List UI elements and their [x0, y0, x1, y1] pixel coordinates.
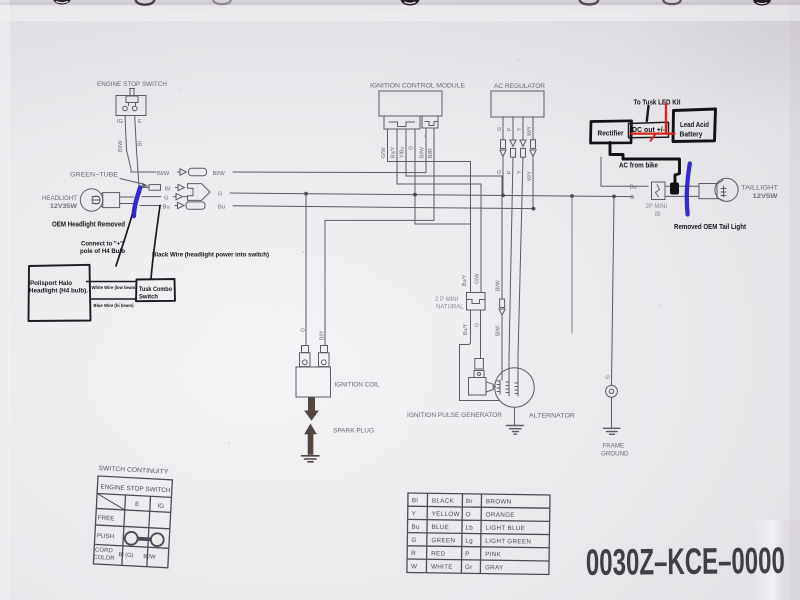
- svg-text:pole of H4 Bulb: pole of H4 Bulb: [80, 248, 125, 255]
- svg-text:G: G: [497, 170, 503, 174]
- frame ground symbol: [604, 428, 621, 434]
- svg-text:Bl/W: Bl/W: [213, 171, 226, 177]
- svg-text:PUSH: PUSH: [97, 533, 115, 541]
- ignition coil T1 terminals: [300, 346, 330, 367]
- wire J1 to taillight (Bu): [665, 185, 699, 187]
- wire U1 pin1 G/W to 2P natural: [388, 129, 471, 292]
- junction dot G bus x306: [304, 192, 308, 196]
- svg-text:To Tusk LED Kit: To Tusk LED Kit: [634, 98, 681, 107]
- svg-text:G: G: [301, 328, 307, 332]
- svg-text:Bl: Bl: [165, 186, 170, 192]
- svg-text:G/W: G/W: [381, 148, 387, 158]
- bullet connector on Bl/W: [500, 299, 505, 308]
- svg-text:OEM Headlight Removed: OEM Headlight Removed: [52, 220, 125, 229]
- wire branch x572 down: [571, 196, 573, 333]
- svg-text:Removed OEM Tail Light: Removed OEM Tail Light: [674, 224, 747, 231]
- svg-text:Switch: Switch: [139, 294, 158, 301]
- binder hole 7: [753, 0, 771, 6]
- annotation wire: to H4 + pole: [116, 208, 134, 266]
- svg-text:GROUND: GROUND: [601, 451, 629, 458]
- svg-text:Lg: Lg: [465, 538, 473, 545]
- svg-text:Rectifier: Rectifier: [598, 129, 624, 138]
- svg-text:IGNITION COIL: IGNITION COIL: [335, 382, 380, 389]
- ignition pulse generator PG1: [469, 359, 496, 396]
- wire bus Bl/W: [233, 171, 426, 174]
- junction dot G bus x503: [501, 194, 505, 198]
- svg-text:ENGINE STOP SWITCH: ENGINE STOP SWITCH: [97, 81, 167, 88]
- annotation wire: blue wire hi beam: [90, 298, 137, 300]
- wire J1 to taillight (G): [665, 195, 699, 197]
- svg-text:BROWN: BROWN: [486, 498, 512, 505]
- binder hole 2: [136, 0, 155, 5]
- svg-text:AC from bike: AC from bike: [619, 163, 658, 170]
- svg-text:Y: Y: [517, 170, 523, 174]
- wire G branch to frame ground: [612, 196, 615, 385]
- svg-text:2 P MINI: 2 P MINI: [435, 297, 459, 303]
- svg-text:Bl/W: Bl/W: [496, 325, 502, 336]
- svg-text:E: E: [138, 119, 142, 125]
- svg-text:P: P: [507, 170, 513, 174]
- svg-text:Br: Br: [466, 498, 473, 505]
- U2 wire Y: [518, 117, 523, 368]
- svg-text:P: P: [507, 127, 513, 131]
- leader arrow to green tube: [120, 179, 145, 185]
- svg-text:HEADLIGHT: HEADLIGHT: [42, 195, 77, 202]
- svg-text:P: P: [465, 551, 470, 558]
- spark plug SP1 arrow up: [304, 424, 317, 455]
- wire bus Bu: [233, 206, 534, 209]
- svg-text:Battery: Battery: [680, 130, 703, 139]
- wire G branch from dot to pulse-gen feed: [415, 194, 471, 224]
- annotation box: DC out: [629, 122, 669, 138]
- svg-text:GREEN: GREEN: [431, 537, 455, 544]
- svg-text:G: G: [630, 195, 635, 201]
- svg-text:Bl: Bl: [655, 212, 660, 218]
- svg-text:G: G: [218, 192, 223, 198]
- svg-text:GRAY: GRAY: [485, 564, 504, 571]
- svg-text:Connect to "+": Connect to "+": [81, 241, 123, 248]
- svg-text:ORANGE: ORANGE: [486, 511, 515, 518]
- svg-text:G: G: [164, 195, 169, 201]
- U2 wire W/Y: [532, 117, 534, 208]
- junction dot G bus x415: [413, 193, 417, 197]
- wire 2P natural G to pulse generator: [480, 310, 482, 359]
- svg-text:Y: Y: [412, 510, 417, 517]
- svg-text:Bl: Bl: [138, 141, 144, 146]
- wire ring to ground: [611, 397, 613, 428]
- svg-text:2P MINI: 2P MINI: [646, 204, 668, 210]
- svg-text:IGNITION PULSE GENERATOR: IGNITION PULSE GENERATOR: [407, 412, 502, 419]
- svg-text:IGNITION CONTROL MODULE: IGNITION CONTROL MODULE: [370, 83, 465, 90]
- svg-text:Blue Wire (hi beam): Blue Wire (hi beam): [94, 303, 134, 309]
- svg-text:BLACK: BLACK: [432, 498, 455, 505]
- wire U1 pin5 Bl/W to bus: [425, 129, 427, 173]
- wire headlight stub Bu: [120, 203, 134, 205]
- svg-text:TAILLIGHT: TAILLIGHT: [741, 185, 778, 192]
- svg-text:CORD: CORD: [95, 547, 114, 554]
- svg-text:NATURAL: NATURAL: [436, 305, 464, 311]
- svg-text:Bu: Bu: [411, 524, 420, 531]
- svg-text:Bu: Bu: [163, 204, 170, 210]
- svg-text:G/W: G/W: [475, 274, 481, 284]
- ignition coil T1: [296, 367, 331, 397]
- ignition control module U1: [379, 91, 442, 116]
- svg-text:LIGHT BLUE: LIGHT BLUE: [485, 525, 525, 533]
- row Bl/W: wire: [131, 171, 156, 173]
- junction dot Bu bus x533: [532, 207, 536, 211]
- ring terminal frame ground: [606, 385, 618, 397]
- wire coil G drop: [305, 194, 307, 345]
- svg-text:IG: IG: [117, 119, 123, 125]
- svg-text:GREEN~TUBE: GREEN~TUBE: [70, 172, 118, 179]
- svg-text:Black Wire (headlight power in: Black Wire (headlight power into switch): [152, 252, 269, 259]
- annotation box: Polisport Halo Headlight: [29, 265, 91, 321]
- row Bu: wire: [140, 205, 161, 207]
- svg-text:AC REGULATOR: AC REGULATOR: [494, 83, 546, 90]
- svg-text:12V5W: 12V5W: [753, 193, 779, 200]
- row G: wire: [142, 196, 161, 198]
- svg-text:Bu: Bu: [218, 205, 225, 211]
- switch continuity table: [93, 465, 173, 568]
- svg-text:G: G: [409, 146, 415, 150]
- binder hole smudge row: [0, 2, 800, 5]
- svg-text:R: R: [411, 550, 416, 557]
- wire U1 pin3 to alternator Bl/W: [406, 129, 502, 298]
- annotation wire: white wire low beam: [86, 281, 137, 283]
- binder hole 6: [663, 0, 681, 4]
- wire 2P natural Bu/Y loop to alternator: [460, 310, 501, 401]
- binder hole 5: [580, 0, 599, 5]
- light paper band under holes: [0, 5, 800, 21]
- connector housing 3P: [188, 184, 211, 201]
- wire color code table: [407, 493, 550, 574]
- svg-text:W/Y: W/Y: [527, 171, 533, 181]
- annotation wire end blob on 2P mini: [670, 183, 679, 195]
- alternator ALT1: [495, 368, 535, 408]
- svg-text:O: O: [466, 511, 471, 518]
- wire alternator to ground: [514, 407, 516, 425]
- svg-text:Bl/R: Bl/R: [428, 148, 434, 158]
- svg-text:Bl/W: Bl/W: [157, 171, 170, 177]
- wire coil Bl/Y drop: [324, 220, 326, 345]
- 2P mini natural connector J2: [435, 274, 485, 335]
- svg-text:Gr: Gr: [465, 564, 473, 571]
- blue marker: taillight cut: [687, 164, 690, 215]
- wire headlight stub G: [120, 196, 134, 198]
- 2P mini Bl connector J1: [630, 182, 668, 218]
- svg-text:Headlight (H4 bulb).: Headlight (H4 bulb).: [29, 288, 88, 295]
- taillight TL1 (12V5W): [699, 178, 779, 201]
- AC regulator U2: [491, 91, 544, 117]
- connector pair arrow Bl/W: [178, 169, 187, 175]
- svg-text:W/Y: W/Y: [527, 126, 533, 136]
- svg-text:W: W: [411, 563, 417, 570]
- svg-text:White Wire (low beam): White Wire (low beam): [92, 285, 137, 291]
- headlight HL1 (12V35W): [42, 189, 120, 211]
- svg-text:Lead Acid: Lead Acid: [680, 120, 709, 129]
- svg-text:Bl: Bl: [412, 497, 418, 504]
- annotation wire: black wire to switch: [151, 206, 160, 280]
- svg-text:RED: RED: [431, 550, 445, 557]
- svg-text:Bu/Y: Bu/Y: [463, 323, 469, 335]
- svg-text:Tusk Combo: Tusk Combo: [139, 286, 172, 293]
- junction dot G bus x614: [612, 195, 616, 199]
- svg-text:BLUE: BLUE: [431, 524, 449, 531]
- annotation wire: AC from bike: [610, 143, 680, 193]
- svg-text:12V35W: 12V35W: [50, 203, 78, 210]
- binder hole 4: [401, 0, 420, 6]
- svg-text:PINK: PINK: [485, 551, 501, 558]
- green tube sleeve on Bl wire: [142, 187, 149, 189]
- annotation box: Rectifier: [591, 121, 632, 143]
- annotation box: Lead Acid Battery: [673, 109, 716, 142]
- svg-text:FREE: FREE: [98, 515, 115, 523]
- red wire: DC out horizontal: [632, 132, 675, 134]
- svg-text:SPARK PLUG: SPARK PLUG: [333, 428, 374, 435]
- svg-text:G: G: [497, 127, 503, 131]
- svg-text:Bl (G): Bl (G): [118, 552, 133, 559]
- U2 wire G: [502, 117, 504, 194]
- svg-text:Bl/W: Bl/W: [420, 147, 426, 158]
- ground (alternator): [507, 426, 524, 435]
- binder hole 3: [213, 0, 231, 4]
- annotation wire: LED kit drop: [647, 106, 649, 121]
- engine stop switch SW1: [116, 89, 146, 126]
- svg-text:WHITE: WHITE: [431, 564, 453, 571]
- svg-text:G: G: [411, 537, 416, 544]
- red wire: DC out vertical: [665, 104, 667, 134]
- svg-text:Bl/W: Bl/W: [118, 140, 124, 152]
- svg-text:Bl/W: Bl/W: [496, 280, 502, 291]
- svg-text:FRAME: FRAME: [603, 443, 625, 450]
- svg-text:Y: Y: [517, 127, 523, 131]
- wire U1 pin4 G to bus: [414, 129, 416, 194]
- wire SW1 IG to Bl/W row: [125, 116, 131, 173]
- annotation box: Tusk Combo Switch: [136, 279, 175, 301]
- svg-text:Bu: Bu: [630, 185, 637, 191]
- svg-text:Y/Bu: Y/Bu: [400, 147, 406, 158]
- svg-text:E: E: [135, 501, 140, 508]
- red tick: [651, 134, 656, 141]
- svg-text:IG: IG: [157, 503, 164, 510]
- svg-text:COLOR: COLOR: [93, 555, 115, 562]
- svg-text:Bu/Y: Bu/Y: [391, 146, 397, 158]
- wire bus G: [230, 193, 633, 197]
- wire SW1 E to Bl row: [135, 116, 139, 187]
- svg-text:0030Z–KCE–0000: 0030Z–KCE–0000: [586, 540, 785, 583]
- blue marker: headlight cut: [134, 188, 140, 217]
- HT lead arrow down: [304, 398, 319, 421]
- svg-text:G: G: [475, 323, 481, 327]
- wire U1 pin6 Bl/R to coil: [325, 129, 434, 220]
- binder hole 1: [53, 0, 71, 5]
- svg-text:Polisport Halo: Polisport Halo: [30, 280, 72, 287]
- junction dot G bus x572: [570, 194, 574, 198]
- svg-text:Lb: Lb: [465, 524, 473, 531]
- svg-text:Bl/W: Bl/W: [143, 554, 156, 561]
- U2 wire P: [509, 117, 513, 368]
- svg-text:LIGHT GREEN: LIGHT GREEN: [485, 538, 531, 546]
- wire U1 pin2 Bu/Y to 2P natural: [397, 129, 481, 292]
- ground (spark plug): [302, 456, 320, 462]
- svg-text:YELLOW: YELLOW: [432, 511, 460, 518]
- svg-text:G: G: [606, 375, 612, 379]
- svg-text:ALTERNATOR: ALTERNATOR: [529, 413, 575, 420]
- paper specks: [179, 59, 661, 444]
- svg-text:Bu/Y: Bu/Y: [462, 274, 468, 286]
- svg-text:Bl/Y: Bl/Y: [320, 330, 326, 340]
- wire 2P mini Bl feed: [601, 157, 648, 186]
